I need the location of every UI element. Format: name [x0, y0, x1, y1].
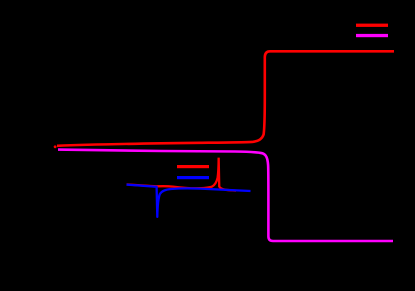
- main magenta curve (step down at x=268): [58, 150, 393, 241]
- main red curve start marker: [54, 145, 57, 148]
- legend middle: red handle: [177, 165, 209, 168]
- legend middle: blue handle: [177, 176, 209, 179]
- main red curve (step up at x=265): [57, 51, 394, 146]
- inset blue curve (spike down at x=157): [127, 185, 251, 217]
- inset red curve (spike up at x=218): [127, 158, 237, 191]
- legend top-right: magenta handle: [356, 34, 388, 37]
- legend top-right: red handle: [356, 24, 388, 27]
